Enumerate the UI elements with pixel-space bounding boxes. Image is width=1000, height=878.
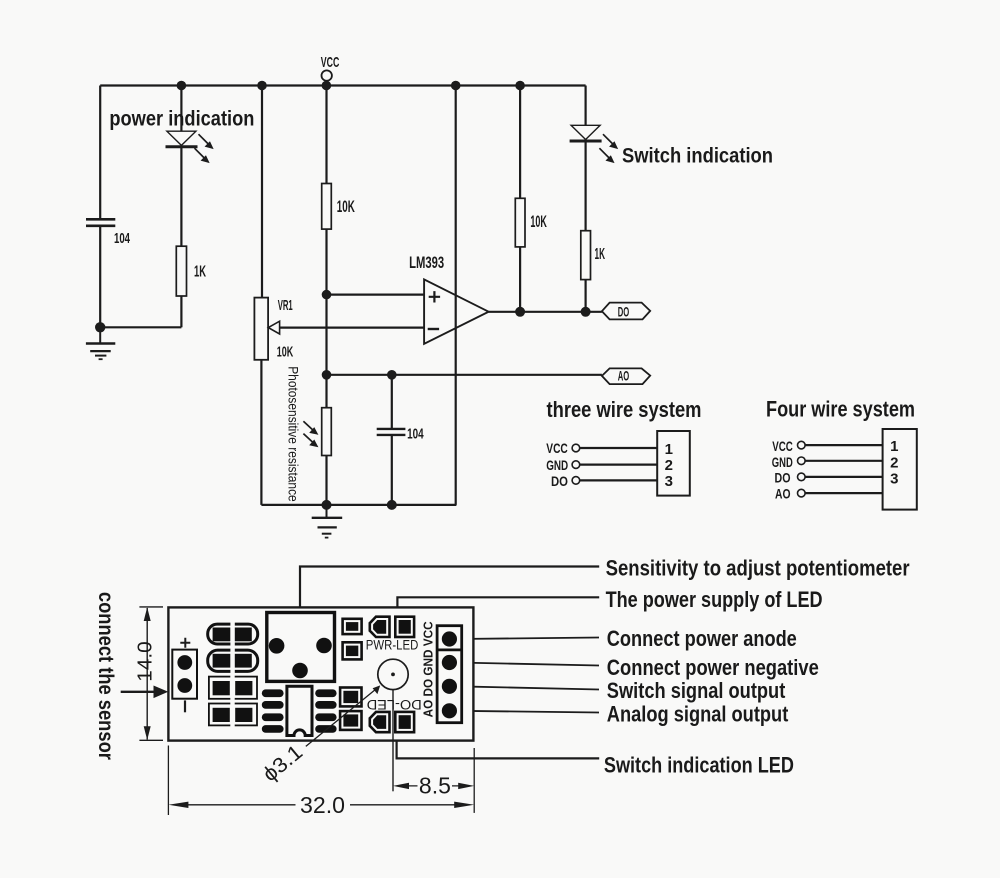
svg-text:104: 104 — [114, 230, 130, 247]
svg-text:VCC: VCC — [321, 54, 340, 71]
svg-text:2: 2 — [890, 455, 898, 472]
svg-text:LM393: LM393 — [409, 254, 444, 272]
svg-text:ϕ3.1: ϕ3.1 — [259, 741, 308, 787]
svg-text:AO: AO — [775, 486, 791, 501]
svg-text:1K: 1K — [194, 264, 206, 281]
svg-text:1: 1 — [890, 438, 898, 455]
svg-text:The power supply of LED: The power supply of LED — [606, 587, 823, 612]
svg-text:AO DO GND VCC: AO DO GND VCC — [422, 621, 436, 717]
svg-text:DO-LED: DO-LED — [366, 697, 421, 712]
svg-text:GND: GND — [546, 458, 568, 473]
svg-text:10K: 10K — [277, 343, 294, 360]
svg-text:1K: 1K — [595, 246, 606, 263]
svg-text:10K: 10K — [337, 198, 355, 216]
svg-text:2: 2 — [665, 457, 673, 474]
svg-text:3: 3 — [665, 473, 673, 490]
svg-text:Four wire system: Four wire system — [766, 397, 915, 422]
svg-text:3: 3 — [890, 471, 898, 488]
svg-text:three wire system: three wire system — [547, 397, 702, 422]
svg-text:Connect power anode: Connect power anode — [607, 626, 797, 651]
svg-text:Connect power negative: Connect power negative — [607, 655, 819, 680]
svg-text:10K: 10K — [530, 213, 547, 231]
svg-text:VR1: VR1 — [278, 297, 293, 314]
svg-text:DO: DO — [618, 303, 630, 319]
svg-text:VCC: VCC — [772, 439, 793, 454]
svg-text:14.0: 14.0 — [135, 641, 157, 682]
svg-text:power indication: power indication — [109, 106, 254, 130]
svg-text:Analog signal output: Analog signal output — [607, 701, 789, 726]
svg-text:Switch signal output: Switch signal output — [607, 678, 786, 703]
svg-text:104: 104 — [407, 426, 424, 443]
svg-text:connect the sensor: connect the sensor — [94, 592, 117, 760]
svg-text:Sensitivity to adjust potentio: Sensitivity to adjust potentiometer — [606, 555, 910, 580]
svg-text:VCC: VCC — [546, 441, 568, 456]
svg-text:PWR-LED: PWR-LED — [366, 637, 419, 652]
svg-text:32.0: 32.0 — [300, 792, 345, 818]
svg-text:Photosensitive resistance: Photosensitive resistance — [285, 366, 300, 502]
svg-text:Switch indication LED: Switch indication LED — [604, 752, 794, 777]
svg-text:DO: DO — [775, 471, 791, 486]
svg-text:GND: GND — [772, 455, 793, 470]
svg-text:DO: DO — [551, 474, 568, 489]
svg-text:1: 1 — [665, 441, 673, 458]
svg-text:AO: AO — [618, 367, 630, 383]
svg-text:Switch indication: Switch indication — [622, 144, 773, 168]
svg-text:8.5: 8.5 — [419, 773, 451, 799]
